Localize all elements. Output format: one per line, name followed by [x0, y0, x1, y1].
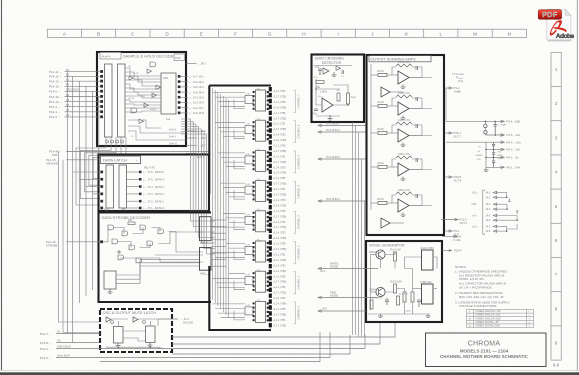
- noise IC U41 CA3080: [422, 284, 434, 304]
- ground symbol power: [484, 167, 489, 171]
- capacitor C12: [314, 109, 318, 111]
- junction dots mute latch: [118, 346, 152, 348]
- S&H decoder output pin square row 5: [178, 101, 181, 104]
- wire P14-4 to S&H decoder: [65, 106, 101, 108]
- wire S+H L out: [186, 130, 197, 132]
- gate U7B: [122, 231, 128, 236]
- wire mute latch output: [158, 318, 178, 320]
- wire P14-10 to S&H decoder: [65, 75, 101, 77]
- ground symbol zcd bottom: [328, 116, 333, 120]
- wire ground return vertical: [59, 152, 101, 323]
- ground symbol zcd top: [332, 72, 337, 76]
- gate U7F: [147, 241, 153, 246]
- wire P14-0: [56, 357, 330, 359]
- summing stage wires: [371, 98, 432, 109]
- wire data bit 4: [127, 178, 142, 180]
- op-amp U24 summing stage 5: [398, 199, 409, 212]
- driver IC pin squares channel 1: [253, 272, 269, 291]
- gate U7I: [136, 258, 142, 263]
- wire vertical bus 2: [355, 126, 357, 336]
- supply conventions table: [467, 310, 534, 328]
- scan noise overlay: [0, 0, 1, 1]
- wire bottom routing bus 2: [172, 323, 380, 344]
- data out pin square 1: [139, 178, 142, 181]
- wire S&H 5 to J6: [181, 86, 188, 88]
- driver IC pin squares channel 5: [253, 151, 269, 170]
- data latch title cell: [101, 156, 141, 164]
- gate U7E: [129, 245, 135, 250]
- summing input bus vertical: [370, 64, 372, 210]
- block: ZERO CROSSING DETECTOR outline: [312, 55, 365, 123]
- gate U3G: [131, 108, 137, 113]
- strobe decoder misc wires: [103, 228, 203, 263]
- terminal symbol J4 group b: [516, 211, 519, 214]
- ground symbol stage 2: [401, 116, 406, 120]
- gate U14B: [133, 317, 138, 322]
- input resistor R51: [378, 104, 387, 107]
- wire noise out P25-8: [442, 236, 457, 238]
- S&H decoder output pin square row 7: [178, 112, 181, 115]
- wire S&H 3 to J6: [181, 96, 188, 98]
- connector pin labels channel matrix: [273, 91, 286, 327]
- op-amp U22 summing stage 3: [398, 129, 409, 142]
- data latch input pin square 3: [100, 193, 103, 196]
- data latch input pin square 4: [100, 200, 103, 203]
- wire data bit 2: [127, 193, 142, 195]
- wire vertical bus 4: [361, 159, 363, 337]
- ground symbol stage 4: [401, 177, 406, 181]
- wire bottom routing bus 5: [329, 332, 331, 358]
- op-amp U23 summing stage 4: [398, 163, 409, 176]
- block: DATA LATCH outline: [99, 155, 210, 212]
- ground symbol stage 5: [401, 213, 406, 217]
- aux IC channel 2: [245, 247, 253, 255]
- S&H decoder input pin square: [100, 110, 103, 113]
- ground symbol noise 1: [378, 314, 383, 317]
- block: NOISE GENERATOR outline: [366, 241, 442, 322]
- logic IC U10 lower strobe FF: [104, 271, 116, 289]
- wire S&H 7 to J6: [181, 76, 188, 78]
- ground symbol mute latch A: [116, 343, 121, 347]
- data out pin square 5: [139, 207, 142, 210]
- decoder IC U9 (4556 B): [200, 248, 212, 271]
- data out pin square 3: [139, 193, 142, 196]
- resistor R64: [411, 292, 414, 302]
- S&H decoder input pin square: [100, 100, 103, 103]
- wire summing output P5-1: [445, 230, 453, 232]
- gate U3H: [150, 62, 156, 67]
- summing stage wires: [371, 195, 432, 206]
- wire P14-5 to S&H decoder: [65, 90, 101, 92]
- gate U7H: [118, 255, 124, 260]
- page right border line: [576, 0, 578, 370]
- transistor Q2: [376, 287, 385, 296]
- input resistor R54: [378, 201, 387, 204]
- gate symbols above FFs: [111, 321, 114, 324]
- S&H decoder input pin square: [100, 80, 103, 83]
- wire P14-14 to S&H decoder: [65, 101, 101, 103]
- feedback resistor R41: [396, 95, 412, 98]
- wire bundle: S&H to data latch elbows: [76, 137, 126, 205]
- wire: left bus vertical 2: [72, 76, 74, 342]
- wire summing aux out P23-2: [441, 219, 458, 221]
- white noise input wire: [318, 268, 378, 270]
- S&H decoder output pin square row 3: [178, 91, 181, 94]
- data latch input pin square 5: [100, 207, 103, 210]
- wire routing channel 0: [213, 304, 256, 320]
- S&H decoder title label box: [100, 52, 121, 59]
- capacitor C53: [492, 149, 495, 157]
- wire data bit 5: [127, 171, 142, 173]
- input resistor R53: [378, 165, 387, 168]
- S&H decoder input pin square: [100, 90, 103, 93]
- data latch input pin square 2: [100, 185, 103, 188]
- data latch input pin square 0: [100, 171, 103, 174]
- aux IC channel 0: [245, 307, 253, 315]
- inverter bubbles row: [106, 140, 124, 143]
- op-amp U30 aux stage: [381, 87, 390, 97]
- resistor R61: [394, 252, 397, 261]
- PDF Adobe icon: [538, 9, 574, 41]
- resistor R34: [316, 81, 324, 84]
- wire bottom long return: [100, 332, 320, 362]
- gate U3D: [129, 76, 133, 80]
- noise IC U40 CA3080: [422, 250, 434, 270]
- wire P14-46: [66, 151, 209, 153]
- feedback resistor R42: [396, 122, 412, 125]
- ground symbol noise 2: [426, 314, 431, 317]
- wire P3-2 drop to jack rows: [445, 88, 447, 121]
- input resistor R52: [378, 131, 387, 134]
- wire S+H I out: [186, 137, 197, 139]
- wire J5-1 SUM 1: [318, 125, 366, 127]
- block: DATA STROBE DECODER outline: [99, 213, 212, 303]
- wire: left bus vertical 5: [92, 91, 94, 290]
- wire S&H J8-3 top row: [186, 63, 197, 65]
- wire J5-2 SUM 2: [318, 131, 366, 133]
- gate U3C: [139, 119, 144, 123]
- S&H decoder input pin square: [100, 95, 103, 98]
- wire J4-1: [496, 192, 507, 194]
- zcd junction dots: [315, 73, 349, 117]
- pink noise input wire: [318, 297, 378, 299]
- wire power P8-2 , -5v: [486, 156, 504, 158]
- logic IC U2 (S&H decoder latch B): [118, 64, 126, 137]
- driver IC channel 4: [256, 181, 266, 202]
- wire S&H J8-8 row: [186, 153, 197, 155]
- wire strobe input: [66, 241, 100, 243]
- wire routing channel 5: [218, 153, 256, 169]
- third noise wire J5-5: [318, 310, 366, 312]
- wire: left bus vertical 6: [98, 97, 100, 284]
- driver IC pin squares channel 2: [253, 242, 269, 261]
- wire: left bus vertical 3: [78, 81, 80, 303]
- page bottom dark strip: [0, 372, 579, 375]
- wire power P8-1 , +5&#x2153;: [486, 166, 504, 168]
- resistor R66: [370, 300, 373, 309]
- block: SAMPLE & HOLD DECODER U-block outline: [97, 52, 186, 146]
- gate U15A zcd: [323, 68, 329, 74]
- capacitor C50 on riser: [494, 121, 497, 135]
- S&H decoder output pin square row 4: [178, 96, 181, 99]
- wire J5-6 SUM 4: [318, 200, 366, 202]
- wire J4-4: [496, 208, 508, 210]
- gate U7D: [112, 239, 118, 244]
- connector J-column (edge connector dashes): [269, 87, 272, 329]
- top ruler grid A-N: [47, 29, 526, 37]
- driver IC pin squares channel 7: [253, 91, 269, 110]
- wire P14-7: [56, 333, 100, 335]
- wire P3-5 row: [485, 134, 504, 136]
- wire S&H 2 to J6: [181, 102, 188, 104]
- wire S&H 1 to J6: [181, 107, 188, 109]
- driver IC pin squares channel 3: [253, 212, 269, 231]
- ground symbol stage 1: [401, 85, 406, 89]
- capacitor C21: [416, 97, 418, 101]
- gate U14A: [106, 317, 111, 322]
- S&H decoder input pin square: [100, 105, 103, 108]
- decoder IC U8 (4556 A): [200, 217, 212, 241]
- zcd ref labels: [314, 76, 345, 98]
- noise internal wires: [368, 252, 437, 314]
- wire routing channel 1: [213, 274, 256, 290]
- wire routing channel 6: [215, 123, 255, 139]
- capacitor C23: [416, 158, 418, 162]
- gate U7C: [140, 225, 146, 230]
- data out pin square 0: [139, 171, 142, 174]
- capacitor C13: [342, 70, 344, 74]
- S&H decoder output pin square row 6: [178, 106, 181, 109]
- op-amp U31 aux stage: [381, 218, 390, 228]
- gate U3F: [144, 103, 149, 107]
- wire bottom routing bus 1: [172, 323, 395, 337]
- aux IC channel 5: [245, 156, 253, 164]
- wire J4-5: [496, 215, 518, 217]
- S&H decoder wires to output IC: [125, 68, 186, 140]
- wire S&H 6 to J6: [181, 81, 188, 83]
- wire P14-1: [56, 348, 168, 350]
- wire routing channel 4: [221, 183, 256, 199]
- wire P14-15 to S&H decoder: [65, 85, 101, 87]
- wire jack vertical: [484, 121, 486, 135]
- wire P14-19 to S&H decoder: [65, 96, 101, 98]
- flip-flop U13: [146, 326, 156, 343]
- driver IC pin squares channel 4: [253, 182, 269, 201]
- wire routing channel 3: [213, 213, 256, 229]
- wire S&H 4 to J6: [181, 91, 188, 93]
- block: OUTPUT SUMMING AMPS outline: [367, 55, 445, 235]
- wire: left bus vertical 4: [85, 86, 87, 296]
- wire J4-2: [496, 196, 507, 198]
- capacitor C11: [318, 69, 322, 74]
- wire routing channel 2: [213, 244, 256, 260]
- S&H decoder output pin square row 2: [178, 86, 181, 89]
- feedback resistor R43: [396, 156, 412, 159]
- wire P14-13 to S&H decoder: [65, 80, 101, 82]
- gate U7A: [108, 225, 114, 230]
- summing stage wires: [371, 67, 432, 78]
- resistor R33: [337, 93, 340, 101]
- wire summing output P3-2: [445, 87, 453, 89]
- right ruler grid 1-9: [551, 52, 561, 360]
- J4 group return wires: [507, 193, 517, 232]
- S&H decoder input pin square: [100, 85, 103, 88]
- capacitor C54: [492, 157, 495, 167]
- S&H decoder output pin square row 0: [178, 75, 181, 78]
- S&H decoder output pin square row 1: [178, 80, 181, 83]
- channel group brackets and names: [294, 91, 301, 324]
- gate U7G: [158, 229, 164, 234]
- summing stage wires: [371, 125, 432, 136]
- wire data bit 3: [127, 186, 142, 188]
- aux IC channel 1: [245, 277, 253, 285]
- block: OSC & OUTPUT MUTE LATCH outline: [100, 309, 172, 352]
- wire dwl return vertical: [63, 160, 100, 333]
- wire power P8-3 , -15v: [486, 148, 504, 150]
- driver IC channel 7: [256, 90, 266, 111]
- zcd wires: [316, 79, 348, 116]
- wire noise out P25-4: [442, 250, 452, 252]
- logic IC U6 (data latch B): [119, 165, 127, 208]
- capacitor C2: [117, 250, 121, 254]
- capacitor C20: [416, 66, 418, 70]
- aux IC channel 4: [245, 186, 253, 194]
- input resistor R50: [378, 73, 387, 76]
- driver IC channel 2: [256, 241, 266, 262]
- summing amps title cell: [369, 56, 431, 62]
- wire P14-2 to S&H decoder: [65, 116, 101, 118]
- driver IC channel 3: [256, 211, 266, 232]
- driver IC channel 1: [256, 271, 266, 292]
- mute latch internal wires: [106, 319, 160, 347]
- feedback resistor R40: [396, 64, 412, 67]
- junction dots J4 group: [506, 197, 518, 232]
- S&H decoder input pin square: [100, 70, 103, 73]
- wire routing channel 7: [213, 93, 256, 109]
- data out pin square 2: [139, 185, 142, 188]
- wire power P8-4 , +15v: [446, 141, 504, 143]
- title block frame: [426, 333, 547, 367]
- page bottom inner hairline: [0, 369, 579, 371]
- gate U3B: [152, 93, 157, 97]
- aux IC channel 7: [245, 96, 253, 104]
- logic IC U4 (S&H output decoder 4051): [161, 73, 176, 114]
- wire P3-6 row: [446, 120, 504, 122]
- driver IC pin squares channel 6: [253, 121, 269, 140]
- wire bottom routing bus 3: [168, 335, 365, 349]
- logic IC U5 (data latch A): [106, 165, 114, 208]
- wire stubs bus to data latch: [73, 172, 100, 208]
- logic IC U1 (S&H decoder latch A): [105, 64, 113, 137]
- driver IC pin squares channel 0: [253, 302, 269, 321]
- S&H decoder input pin square: [100, 75, 103, 78]
- S&H tiny ref labels: [128, 66, 171, 138]
- wire data bit 0: [127, 207, 142, 209]
- data out pin square 4: [139, 200, 142, 203]
- gate U15B: [336, 66, 341, 70]
- wire J4-7: [496, 225, 507, 227]
- terminal symbol J4 group a: [508, 199, 511, 202]
- gate U3E: [156, 85, 161, 89]
- gate U3A: [147, 69, 152, 73]
- wire vertical bus 5: [364, 201, 366, 337]
- ground symbol mute latch B: [148, 343, 153, 347]
- wire vertical bus zcd to bottom 1: [352, 122, 354, 335]
- wire J5-3 SUM 3: [318, 158, 366, 160]
- aux IC channel 3: [245, 216, 253, 224]
- op-amp U16 zcd comparator: [322, 98, 333, 112]
- connector bracket J4 group: [483, 190, 485, 234]
- wire: left bus vertical 1: [66, 72, 68, 334]
- feedback resistor R44: [396, 192, 412, 195]
- op-amp U21 summing stage 2: [398, 102, 409, 115]
- op-amp U20 summing stage 1: [398, 71, 409, 84]
- driver IC channel 0: [256, 301, 266, 322]
- wire P14-11 to S&H decoder: [65, 71, 101, 73]
- resistor R63: [403, 292, 406, 302]
- ground symbol stage 3: [401, 143, 406, 147]
- wire J4-8: [496, 230, 507, 232]
- resistor R21: [128, 222, 135, 225]
- wire S+H O out: [186, 144, 197, 146]
- jack circle upper: [484, 124, 487, 127]
- power bus vertical P8: [485, 142, 487, 167]
- transistor Q1: [376, 250, 385, 259]
- capacitor C24: [416, 194, 418, 198]
- wire bottom routing bus 4: [172, 335, 350, 354]
- output level note text: [452, 73, 464, 83]
- capacitor C22: [416, 124, 418, 128]
- block: channel driver matrix outline: [209, 86, 271, 331]
- wire summing output P23-7: [445, 132, 453, 134]
- wire J4-6: [496, 219, 518, 221]
- capacitor C52: [492, 142, 495, 149]
- junction dots P3 rows: [485, 121, 496, 136]
- jack circle lower: [484, 131, 487, 134]
- page left border line: [1, 0, 3, 370]
- strobe FF fan wires: [116, 260, 199, 284]
- summing stage wires: [371, 159, 432, 170]
- wire S&H 0 to J6: [181, 112, 188, 114]
- junction dots P8 rows: [485, 149, 494, 159]
- wire P14-8: [56, 342, 100, 344]
- data latch input pin square 1: [100, 178, 103, 181]
- resistor R62: [394, 284, 397, 293]
- wire J4-3: [496, 203, 508, 205]
- driver IC channel 5: [256, 150, 266, 171]
- ground symbol strobe FF: [108, 289, 113, 293]
- wire bundle: data bus down to strobe decoder: [181, 119, 215, 254]
- flip-flop U12: [114, 327, 124, 344]
- driver IC channel 6: [256, 120, 266, 141]
- wire P14-15 ground: [66, 159, 99, 161]
- wire data bit 1: [127, 200, 142, 202]
- capacitor C32: [417, 300, 421, 307]
- S&H decoder input pin square: [100, 115, 103, 118]
- S&H decoder corner ref label box: [174, 54, 185, 60]
- resistor R65: [397, 296, 400, 305]
- notes text block: [455, 265, 510, 308]
- aux IC channel 6: [245, 126, 253, 134]
- wire summing output P23-8: [445, 176, 453, 178]
- wire vertical bus 3: [358, 132, 360, 337]
- wire: matrix internal bus verticals: [213, 88, 229, 318]
- capacitor C31: [385, 300, 389, 305]
- wire strobe decoder outputs to channel drivers: [211, 220, 226, 266]
- resistor R32 vertical: [347, 93, 350, 104]
- wire P14-3 to S&H decoder: [65, 111, 101, 113]
